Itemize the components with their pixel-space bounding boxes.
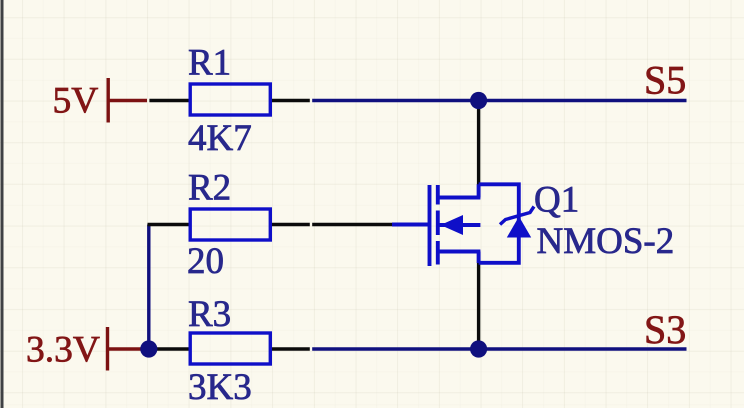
net label S5	[644, 58, 686, 103]
body rail bracket	[479, 184, 519, 262]
transistor Q1	[312, 101, 519, 350]
wire top rail to S5	[312, 99, 686, 102]
svg-text:3.3V: 3.3V	[26, 330, 100, 371]
wire bottom rail to S3	[312, 347, 686, 350]
resistor R1	[149, 84, 309, 115]
junction bottom node	[470, 340, 487, 357]
power port 3.3V	[26, 327, 147, 371]
svg-text:S5: S5	[644, 58, 686, 103]
label Q1	[534, 180, 579, 221]
svg-text:Q1: Q1	[534, 180, 579, 221]
svg-text:NMOS-2: NMOS-2	[537, 221, 675, 262]
channel segment bottom	[436, 241, 440, 265]
svg-text:20: 20	[187, 241, 224, 282]
body stub	[438, 223, 481, 227]
value 3K3	[188, 367, 252, 408]
svg-text:S3: S3	[644, 307, 686, 352]
drain stub	[438, 196, 481, 200]
gate lead (blue)	[392, 223, 430, 227]
label R3	[188, 294, 231, 335]
source stub	[438, 250, 481, 254]
drain connector	[477, 184, 481, 197]
wire left vertical from R2 to bottom rail	[147, 225, 150, 350]
drain pin (black)	[477, 101, 480, 186]
gate bar	[428, 185, 432, 266]
body arrow	[441, 215, 464, 235]
value 4K7	[188, 118, 252, 159]
body diode of Q1	[500, 207, 534, 238]
junction top node	[470, 92, 487, 109]
net label S3	[644, 307, 686, 352]
resistor R3	[149, 333, 309, 364]
svg-text:5V: 5V	[53, 81, 99, 122]
channel segment top	[436, 185, 440, 205]
junction 3.3V node	[140, 340, 157, 357]
svg-text:4K7: 4K7	[188, 118, 252, 159]
value NMOS-2	[537, 221, 675, 262]
source pin (black)	[477, 263, 480, 349]
svg-text:R3: R3	[188, 294, 231, 335]
sheet border	[1, 0, 4, 408]
label R1	[188, 43, 231, 84]
gate pin (black)	[312, 223, 393, 226]
label R2	[188, 168, 231, 209]
source connector	[477, 252, 481, 264]
power port 5V	[53, 78, 148, 123]
channel segment middle	[436, 211, 440, 236]
svg-text:R1: R1	[188, 43, 231, 84]
svg-text:R2: R2	[188, 168, 231, 209]
value 20	[187, 241, 224, 282]
resistor R2	[148, 209, 310, 240]
svg-text:3K3: 3K3	[188, 367, 252, 408]
